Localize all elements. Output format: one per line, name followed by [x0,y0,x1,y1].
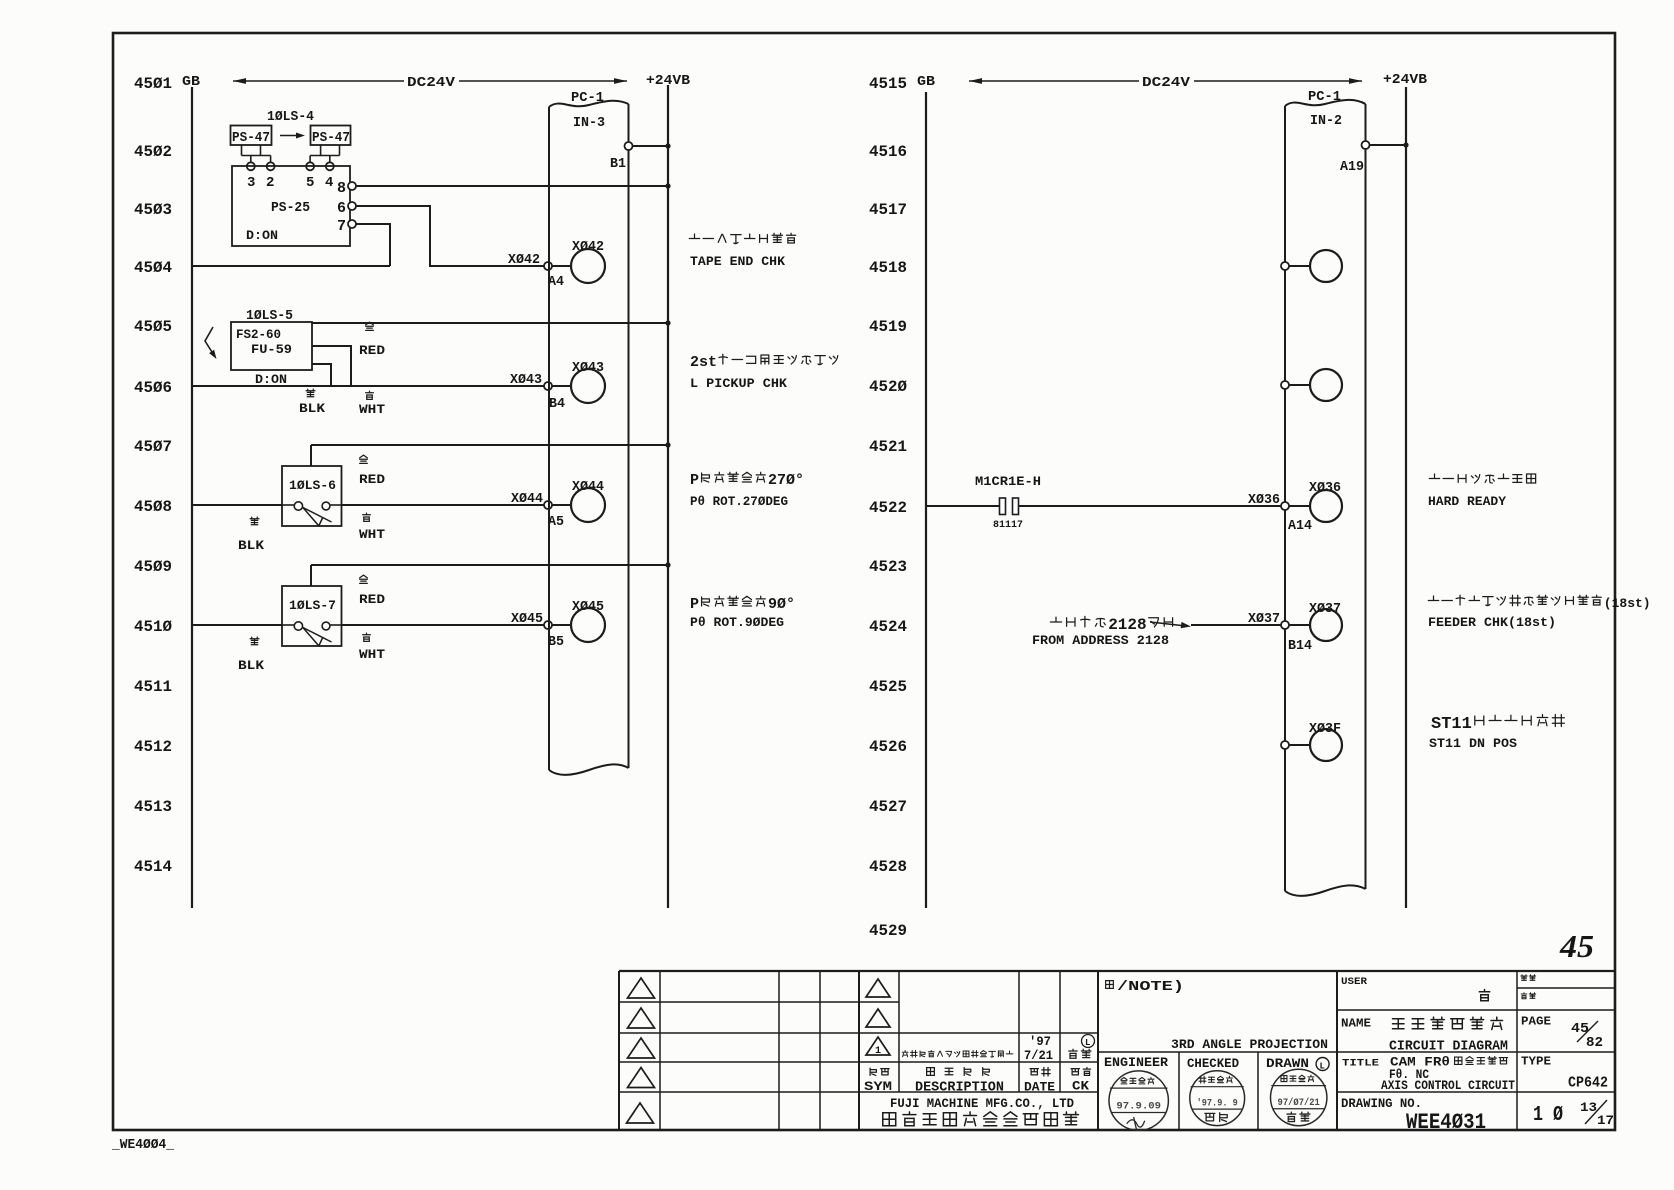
wire pin8 to +24VB bus [356,185,668,187]
actuation arrow chevron [205,327,215,356]
svg-text:CIRCUIT DIAGRAM: CIRCUIT DIAGRAM [1389,1040,1508,1055]
svg-text:BLK: BLK [299,401,325,416]
svg-text:FUJI MACHINE MFG.CO., LTD: FUJI MACHINE MFG.CO., LTD [890,1097,1074,1111]
svg-text:XØ44: XØ44 [511,491,543,507]
terminal 5 of PS-25 [306,162,314,170]
revision triangle B1 [866,979,890,997]
connector PC-1 IN-2 left edge [1284,106,1286,891]
wire terminal to lamp X045 [552,624,571,626]
wire black FS box to 4506 [312,364,331,386]
svg-text:A14: A14 [1288,518,1312,534]
terminal X044 [544,501,552,509]
svg-text:PS-47: PS-47 [312,130,350,146]
svg-text:4522: 4522 [869,499,907,517]
header tantou kanji [1071,1069,1079,1075]
svg-text:PC-1: PC-1 [571,90,604,106]
wire terminal to lamp X043 [552,385,571,387]
svg-text:M1CR1E-H: M1CR1E-H [975,474,1041,489]
svg-text:97.9.09: 97.9.09 [1116,1101,1161,1112]
wire 4505 box top to +24VB bus [312,322,668,324]
svg-text:4512: 4512 [134,738,172,756]
terminal B1 [625,142,633,150]
svg-text:(18st): (18st) [1604,596,1651,611]
label seiban kanji [1521,993,1527,999]
wire to lamp X03F [1289,744,1310,746]
svg-text:TAPE END CHK: TAPE END CHK [690,254,785,269]
wire A19 to +24VB bus [1370,144,1407,146]
proximity switch PS-47 no.1 [231,126,272,146]
terminal 4 of PS-25 [326,162,334,170]
header teisei kiroku kanji [927,1068,935,1076]
junction dot pin8 bus [665,183,670,188]
svg-text:CHECKED: CHECKED [1187,1056,1239,1071]
svg-text:D:ON: D:ON [246,228,278,243]
svg-text:45: 45 [1559,928,1594,964]
revision triangle A1 [628,978,655,998]
svg-text:DRAWN: DRAWN [1266,1056,1309,1071]
wire terminal to lamp X042 [552,265,571,267]
limit switch 10LS-7 contacts [294,622,302,630]
wire red drop to 10LS-6 [310,445,312,466]
lamp X03F [1310,729,1342,761]
svg-text:L PICKUP CHK: L PICKUP CHK [690,376,787,391]
svg-text:45Ø4: 45Ø4 [134,259,172,277]
title jiku seigyo kairo kanji [1455,1057,1462,1064]
svg-text:CP642: CP642 [1568,1076,1608,1092]
svg-text:B5: B5 [548,634,564,650]
power bus +24VB right [1405,87,1407,908]
pin 7 terminal [348,220,356,228]
limit switch 10LS-7 box [282,586,342,646]
svg-text:FEEDER CHK(18st): FEEDER CHK(18st) [1428,615,1556,630]
svg-text:ST11 DN POS: ST11 DN POS [1429,736,1517,751]
header hizuke kanji [1030,1069,1038,1075]
wire to lamp row 4518 [1289,265,1310,267]
svg-text:4528: 4528 [869,858,907,876]
wire contact to terminal X036 [1019,505,1282,507]
svg-text:XØ43: XØ43 [510,372,542,388]
svg-text:HARD READY: HARD READY [1428,494,1506,509]
fiber sensor FS2-60 FU-59 box [231,322,312,370]
svg-text:4529: 4529 [869,922,907,940]
wire pin7 to GB line 4504 [356,224,390,266]
svg-text:ENGINEER: ENGINEER [1104,1055,1168,1070]
svg-text:4526: 4526 [869,738,907,756]
svg-text:2128: 2128 [1108,616,1146,634]
svg-text:RED: RED [359,343,385,358]
revision triangle A3 [628,1038,655,1058]
revision note zenmen sashikae kanji [902,1051,908,1057]
wire inside 10LS-7 right [330,624,342,626]
wire inside 10LS-6 right [330,504,342,506]
svg-text:1ØLS-6: 1ØLS-6 [289,478,336,493]
revision CK circled L [1082,1035,1095,1048]
svg-text:RED: RED [359,592,385,607]
wire 10LS-7 to terminal X045 [342,624,545,626]
lamp X037 [1310,609,1342,641]
revision triangle B3 numbered 1 [866,1037,890,1055]
svg-text:7: 7 [337,218,346,235]
label white kanji 10LS-7 [363,633,371,641]
svg-text:'97.9. 9: '97.9. 9 [1197,1097,1238,1109]
relay contact M1CR1E-H bars [1000,498,1006,515]
revision triangle A2 [628,1008,655,1028]
power bus +24VB left [667,85,669,908]
connector PC-1 IN-3 top wave [549,101,629,107]
pin 6 terminal [348,202,356,210]
svg-text:WEE4Ø31: WEE4Ø31 [1406,1110,1486,1135]
stamp dividers [1178,1052,1180,1130]
description tape end chk kanji [689,234,699,239]
svg-text:17: 17 [1597,1113,1614,1128]
title block revision table B verticals [898,971,900,1092]
revision triangle A4 [628,1068,655,1088]
label white kanji 10LS-6 [363,513,371,521]
wire red FS box to 4506 [312,346,351,386]
junction dot A19 bus [1403,142,1408,147]
svg-text:XØ45: XØ45 [511,611,543,627]
svg-text:USER: USER [1341,976,1368,988]
svg-text:+24VB: +24VB [646,73,691,89]
connector PC-1 IN-3 bottom wave [549,764,629,775]
label red kanji 10LS-7 [360,575,368,583]
svg-text:L: L [1085,1038,1090,1048]
svg-text:3RD ANGLE PROJECTION: 3RD ANGLE PROJECTION [1171,1037,1328,1052]
revision CK esaka kanji [1069,1049,1077,1058]
terminal X042 [544,262,552,270]
note label [1106,981,1114,989]
power bus GB right [925,92,927,908]
svg-text:81117: 81117 [993,520,1023,531]
svg-text:P: P [690,596,699,613]
terminal 3 of PS-25 [247,162,255,170]
svg-text:'97: '97 [1029,1034,1051,1049]
svg-text:1ØLS-7: 1ØLS-7 [289,598,336,613]
svg-text:Pθ ROT.9ØDEG: Pθ ROT.9ØDEG [690,615,784,630]
svg-text:L: L [1320,1062,1325,1072]
svg-text:B14: B14 [1288,638,1312,654]
svg-text:45Ø5: 45Ø5 [134,318,172,336]
wire address to terminal X037 [1191,624,1281,626]
label white wire kanji shiro [366,391,374,399]
svg-text:B4: B4 [549,396,565,412]
wire inside 10LS-6 left [282,504,294,506]
arrow from address note [1150,622,1186,626]
lamp X044 [571,488,605,522]
wire pin6 to lamp X042 [356,206,544,266]
svg-text:4: 4 [325,175,333,191]
lamp X045 [571,608,605,642]
pin 8 terminal [348,182,356,190]
svg-text:2: 2 [266,175,274,191]
svg-text:GB: GB [917,74,936,90]
wire B1 to +24VB bus [633,145,669,147]
svg-text:WHT: WHT [359,527,385,542]
svg-text:CK: CK [1072,1079,1089,1094]
label tono kanji [1479,990,1490,1001]
svg-text:DC24V: DC24V [1142,75,1191,91]
svg-text:4518: 4518 [869,259,907,277]
svg-text:WHT: WHT [359,402,385,417]
svg-text:B1: B1 [610,156,626,172]
svg-text:+24VB: +24VB [1383,72,1428,88]
svg-text:GB: GB [182,74,201,90]
svg-text:2st: 2st [690,354,717,371]
revision triangle A5 [627,1103,654,1123]
wire 4508 GB bus to 10LS-6 [192,504,282,506]
svg-text:NAME: NAME [1341,1018,1371,1031]
terminal X037 [1281,621,1289,629]
svg-text:FU-59: FU-59 [251,342,292,357]
wire terminal to lamp X037 [1289,624,1310,626]
wire terminal to lamp X036 [1289,505,1310,507]
svg-text:A5: A5 [548,514,564,530]
svg-text:TITLE: TITLE [1342,1058,1379,1070]
svg-text:45Ø9: 45Ø9 [134,558,172,576]
connector PC-1 IN-3 right edge [628,104,630,768]
svg-text:4523: 4523 [869,558,907,576]
svg-text:4513: 4513 [134,798,172,816]
wire 4510 GB bus to 10LS-7 [192,624,282,626]
svg-text:4511: 4511 [134,678,172,696]
wire to lamp row 4520 [1289,384,1310,386]
svg-text:8: 8 [337,180,346,197]
svg-text:A19: A19 [1340,159,1364,175]
svg-text:45Ø1: 45Ø1 [134,75,172,93]
label black kanji 10LS-6 [250,517,259,525]
terminal row 4518 [1281,262,1289,270]
svg-text:1: 1 [875,1046,881,1057]
lamp X042 [571,249,605,283]
svg-text:4515: 4515 [869,75,907,93]
svg-text:WHT: WHT [359,647,385,662]
svg-text:DESCRIPTION: DESCRIPTION [915,1081,1004,1096]
wire GB bus to contact [926,505,999,507]
svg-text:Pθ ROT.27ØDEG: Pθ ROT.27ØDEG [690,494,788,509]
svg-text:IN-3: IN-3 [573,115,605,131]
svg-text:_WE4ØØ4_: _WE4ØØ4_ [111,1138,175,1153]
wire 4509 red to +24VB bus [311,564,668,566]
svg-text:SYM: SYM [864,1079,892,1094]
svg-text:/NOTE): /NOTE) [1117,979,1184,995]
connector PC-1 IN-2 top wave [1285,100,1366,106]
title block outline top [619,970,1616,972]
wire 4507 red to +24VB bus [311,444,668,446]
svg-text:4527: 4527 [869,798,907,816]
terminal X045 [544,621,552,629]
svg-text:45Ø2: 45Ø2 [134,143,172,161]
svg-text:451Ø: 451Ø [134,618,172,636]
label bunban kanji [1521,975,1527,981]
header kigou kanji [870,1068,876,1075]
wire terminal to lamp X044 [552,504,571,506]
svg-text:IN-2: IN-2 [1310,113,1342,129]
arrow between PS-47 sensors [280,135,301,137]
svg-text:DATE: DATE [1024,1080,1055,1095]
revision triangle B2 [866,1009,890,1027]
stamp CHECKED [1190,1071,1245,1126]
svg-text:6: 6 [337,200,346,217]
svg-text:PS-25: PS-25 [271,200,310,216]
svg-text:XØ36: XØ36 [1248,492,1280,508]
title denki kairo senzu kanji [1392,1019,1404,1029]
svg-text:FROM ADDRESS 2128: FROM ADDRESS 2128 [1032,633,1169,648]
label black kanji 10LS-7 [250,637,259,645]
lamp X043 [571,369,605,403]
svg-text:AXIS CONTROL CIRCUIT: AXIS CONTROL CIRCUIT [1381,1079,1515,1093]
connector PC-1 IN-2 right edge [1365,104,1367,889]
svg-text:PAGE: PAGE [1521,1016,1551,1029]
wire 10LS-6 to terminal X044 [342,504,545,506]
junction dot B1 bus [665,143,670,148]
svg-text:D:ON: D:ON [255,372,287,387]
svg-text:45Ø8: 45Ø8 [134,498,172,516]
stamp ENGINEER [1109,1071,1168,1130]
svg-text:TYPE: TYPE [1521,1056,1551,1069]
junction dot 4509 bus [665,562,670,567]
svg-text:XØ42: XØ42 [508,252,540,268]
wire 4506 from GB bus to terminal X043 [192,385,544,387]
svg-text:4521: 4521 [869,438,907,456]
drawn circled L [1316,1058,1329,1071]
title block revision table A [618,971,620,1130]
svg-text:45Ø7: 45Ø7 [134,438,172,456]
terminal X036 [1281,502,1289,510]
svg-text:4514: 4514 [134,858,172,876]
svg-text:1 Ø: 1 Ø [1533,1104,1563,1127]
stamp DRAWN [1271,1069,1327,1125]
junction dot 4505 bus [665,320,670,325]
wire 4504 from GB bus [192,265,390,267]
amplifier unit PS-25 [232,166,350,246]
title block shared row lines [619,1032,1098,1034]
svg-text:82: 82 [1586,1035,1603,1051]
svg-text:A4: A4 [548,274,564,290]
svg-text:XØ37: XØ37 [1248,611,1280,627]
note box [1098,1051,1337,1053]
junction dot 4507 bus [665,442,670,447]
svg-text:4525: 4525 [869,678,907,696]
power arrow DC24V right [969,80,1139,82]
svg-text:452Ø: 452Ø [869,378,907,396]
svg-text:45Ø6: 45Ø6 [134,379,172,397]
power arrow DC24V left [233,80,404,82]
svg-text:PC-1: PC-1 [1308,89,1341,105]
wire red drop to 10LS-7 [310,565,312,586]
lamp row 4518 [1310,250,1342,282]
connector PC-1 IN-3 left edge [548,107,550,770]
svg-text:4516: 4516 [869,143,907,161]
label black wire kanji kuro [306,389,315,397]
limit switch 10LS-6 box [282,466,342,526]
terminal 2 of PS-25 [267,162,275,170]
lamp X036 [1310,490,1342,522]
lamp row 4520 [1310,369,1342,401]
wire inside 10LS-7 left [282,624,294,626]
right block rows [1337,1009,1616,1011]
description hardware normal kanji [1429,474,1439,479]
svg-text:9Ø°: 9Ø° [768,596,795,613]
terminal row 4526 [1281,741,1289,749]
svg-text:P: P [690,472,699,489]
svg-text:BLK: BLK [238,658,264,673]
svg-text:27Ø°: 27Ø° [768,472,804,489]
power bus GB left [191,87,193,908]
terminal X043 [544,382,552,390]
label red wire kanji aka [366,322,374,330]
svg-text:1ØLS-4: 1ØLS-4 [267,109,314,125]
limit switch 10LS-6 contacts [294,502,302,510]
svg-text:4524: 4524 [869,618,907,636]
svg-text:3: 3 [247,175,255,191]
svg-text:FS2-60: FS2-60 [236,327,281,342]
svg-text:4519: 4519 [869,318,907,336]
svg-text:RED: RED [359,472,385,487]
proximity switch PS-47 no.2 [311,126,351,146]
svg-text:5: 5 [306,175,314,191]
svg-text:BLK: BLK [238,538,264,553]
svg-text:PS-47: PS-47 [232,130,270,146]
terminal row 4520 [1281,381,1289,389]
connector PC-1 IN-2 bottom wave [1285,885,1366,896]
svg-text:DRAWING NO.: DRAWING NO. [1341,1097,1422,1111]
company name fuji kikai kanji [883,1113,896,1126]
svg-text:97/Ø7/21: 97/Ø7/21 [1278,1097,1320,1109]
description cartridge kanji [1428,596,1438,601]
terminal A19 [1362,141,1370,149]
svg-text:7/21: 7/21 [1024,1048,1053,1063]
label red kanji 10LS-6 [360,455,368,463]
svg-text:DC24V: DC24V [407,75,456,91]
svg-text:ST11: ST11 [1431,715,1472,734]
note from address 2128 kanji [1050,617,1061,622]
svg-text:4517: 4517 [869,201,907,219]
svg-text:45Ø3: 45Ø3 [134,201,172,219]
